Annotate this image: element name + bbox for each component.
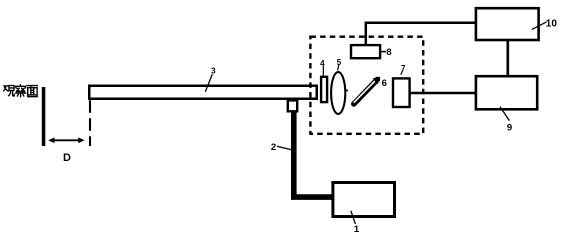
box 1 (laser source) xyxy=(333,183,395,217)
wire from box 8 up to box 10 xyxy=(366,23,476,45)
distance arrow D xyxy=(48,137,84,143)
svg-text:D: D xyxy=(63,152,71,164)
wire from detector 7 to box 9 xyxy=(410,92,476,95)
svg-text:6: 6 xyxy=(382,78,387,89)
label 2 with leader xyxy=(271,142,291,153)
box 8 xyxy=(351,45,380,58)
label 10 with leader xyxy=(532,19,557,30)
label 7 with leader xyxy=(401,64,406,75)
box 9 xyxy=(476,76,537,109)
svg-text:3: 3 xyxy=(211,66,216,75)
label 4 with leader xyxy=(320,59,325,76)
dashed enclosure box xyxy=(310,37,423,134)
label 5 with leader xyxy=(337,58,342,71)
svg-text:10: 10 xyxy=(546,19,558,30)
svg-text:2: 2 xyxy=(271,142,276,153)
label 8 with leader xyxy=(381,47,391,58)
label 观察面 (observation plane text) xyxy=(4,85,38,97)
svg-text:8: 8 xyxy=(386,47,391,58)
connector under tube xyxy=(288,100,297,111)
svg-text:4: 4 xyxy=(320,59,325,68)
svg-text:9: 9 xyxy=(507,122,512,133)
detector 7 xyxy=(393,78,410,107)
svg-text:5: 5 xyxy=(337,58,342,67)
lens 5 xyxy=(331,72,345,114)
label 1 with leader xyxy=(351,211,360,235)
wire between box 10 and box 9 xyxy=(506,40,509,76)
tube 3 xyxy=(89,86,317,99)
svg-text:1: 1 xyxy=(354,224,360,235)
observation plane line xyxy=(42,87,46,146)
label 3 with leader xyxy=(205,66,216,91)
box 10 xyxy=(476,8,539,40)
dashed line below tube left end xyxy=(89,100,91,146)
thick cable 2 xyxy=(294,112,332,198)
mirror 6 xyxy=(354,77,381,104)
slit 4 xyxy=(321,77,327,102)
label 9 with leader xyxy=(500,107,512,134)
svg-text:7: 7 xyxy=(401,64,406,73)
